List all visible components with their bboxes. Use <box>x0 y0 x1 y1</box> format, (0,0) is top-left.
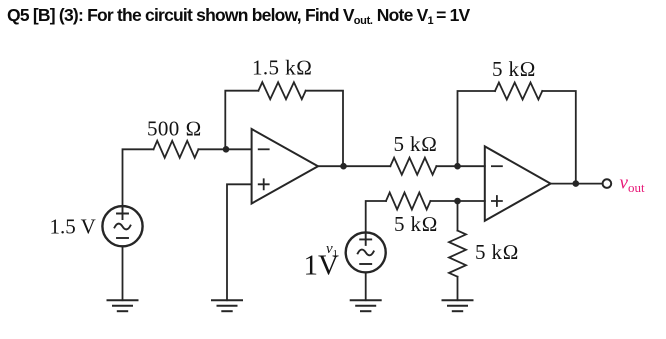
ground (op1 + input) <box>212 300 242 311</box>
resistor R4 5kohm feedback <box>495 83 542 100</box>
wire: 1.5V source bottom to ground <box>122 246 124 300</box>
title <box>7 5 469 26</box>
wire: op1 + input to ground <box>227 184 252 300</box>
svg-text:500 Ω: 500 Ω <box>147 117 202 141</box>
svg-text:1.5 kΩ: 1.5 kΩ <box>252 55 313 79</box>
resistor R2 1.5kohm <box>258 82 305 99</box>
wire: V2 bottom to ground <box>365 272 367 300</box>
wire: R2 to op1 output node <box>306 91 343 167</box>
resistor R5 5kohm <box>386 193 430 210</box>
svg-text:5 kΩ: 5 kΩ <box>394 212 438 236</box>
svg-text:5 kΩ: 5 kΩ <box>475 240 519 264</box>
voltage source V2 1V <box>346 232 386 272</box>
node A (junction, inverting input U1) <box>223 146 230 153</box>
resistor R3 5kohm <box>390 158 436 175</box>
svg-text:v1: v1 <box>326 241 338 260</box>
svg-text:5 kΩ: 5 kΩ <box>492 57 536 81</box>
node D (op2 output / feedback junction) <box>573 180 580 187</box>
ground (1.5V source) <box>108 300 138 311</box>
wire: R6 to ground <box>457 277 459 301</box>
ground (V2 source) <box>351 300 381 311</box>
wire: node C up to feedback resistor R4 <box>458 91 496 166</box>
wire: op1 output to R3 <box>318 165 390 167</box>
wire: v1 source top to R5 <box>366 201 386 232</box>
resistor R1 500ohm <box>154 141 199 158</box>
node B (op1 output / feedback junction) <box>340 163 347 170</box>
resistor R6 5kohm vertical <box>449 231 466 277</box>
wire: op2 output to terminal <box>551 183 603 185</box>
ground (R6) <box>443 300 473 311</box>
terminal vout (open circle) <box>603 179 612 188</box>
wire: node E down to R6 <box>457 201 459 231</box>
svg-text:1.5 V: 1.5 V <box>50 215 96 239</box>
voltage source V1 1.5V <box>102 206 142 246</box>
svg-text:vout: vout <box>620 172 645 195</box>
wire: R5 to op2 non-inverting input <box>430 200 484 202</box>
wire: R4 to op2 output node <box>542 91 576 184</box>
op-amp U2 <box>485 146 551 220</box>
wire: R1 to op-amp U1 inverting input <box>198 148 251 150</box>
wire: node A up to feedback resistor R2 <box>225 91 258 150</box>
node E (non-inverting input U2) <box>454 198 461 205</box>
wire: R3 to op-amp U2 inverting input <box>436 165 484 167</box>
svg-text:5 kΩ: 5 kΩ <box>394 132 438 156</box>
node C (inverting input U2) <box>454 163 461 170</box>
op-amp U1 <box>252 129 318 204</box>
wire: 1.5V source top up to input row <box>123 149 154 206</box>
